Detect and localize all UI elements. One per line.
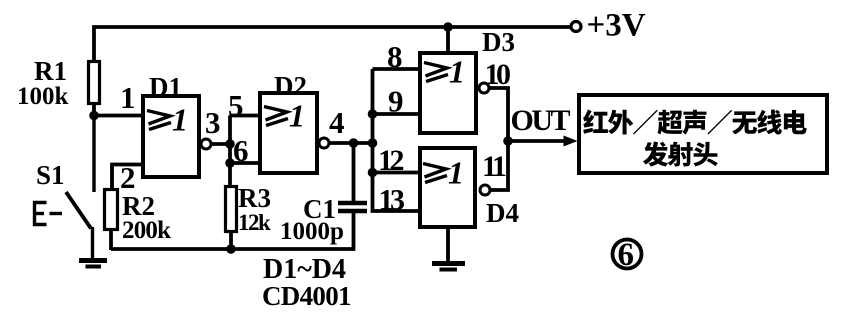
svg-text:D3: D3 xyxy=(482,27,515,57)
figure number 6 circled xyxy=(613,237,642,273)
wire feedback vertical (pin5/pin6/R3) xyxy=(228,116,232,187)
svg-text:2: 2 xyxy=(120,160,136,195)
junction dot pin6 xyxy=(225,158,235,168)
resistor R1 xyxy=(89,62,100,117)
wire pin 12 xyxy=(373,171,421,175)
switch S1 xyxy=(35,116,95,259)
svg-text:S1: S1 xyxy=(36,160,65,190)
ground (below S1) xyxy=(79,261,107,267)
svg-text:1: 1 xyxy=(172,102,188,138)
svg-text:D1: D1 xyxy=(149,72,182,102)
gate D3 (NOR, CD4001) xyxy=(420,53,476,133)
svg-text:D2: D2 xyxy=(274,71,307,101)
output bubble D2 xyxy=(319,138,329,148)
svg-text:D4: D4 xyxy=(486,198,519,228)
svg-text:+3V: +3V xyxy=(587,8,646,44)
svg-text:CD4001: CD4001 xyxy=(262,281,351,311)
wire +3V top rail xyxy=(94,27,571,62)
capacitor C1 xyxy=(338,143,367,211)
svg-text:4: 4 xyxy=(329,105,345,140)
output bubble D3 xyxy=(479,83,489,93)
wire pin 1 xyxy=(94,114,143,118)
wire pin 8 xyxy=(373,67,421,71)
svg-text:6: 6 xyxy=(233,133,249,168)
wire input bus vertical (pins 8,9,12,13) xyxy=(373,69,421,211)
wire D1 output to node xyxy=(211,142,230,146)
svg-text:12k: 12k xyxy=(238,210,271,235)
output bubble D1 xyxy=(201,139,211,149)
junction dot pin9 xyxy=(368,109,378,119)
wire pin 5 xyxy=(230,114,260,118)
gate D1 (NOR, CD4001) xyxy=(143,96,199,177)
svg-text:6: 6 xyxy=(618,237,635,273)
output bubble D4 xyxy=(480,185,490,195)
wire D4 ground stub xyxy=(446,227,450,261)
svg-text:3: 3 xyxy=(205,105,221,140)
resistor R3 xyxy=(226,187,237,251)
svg-text:10: 10 xyxy=(485,58,511,91)
svg-text:8: 8 xyxy=(387,39,403,74)
wire pin 6 xyxy=(230,161,260,165)
svg-text:R3: R3 xyxy=(238,183,271,213)
svg-text:11: 11 xyxy=(482,150,506,183)
transmitter box xyxy=(579,95,827,173)
svg-text:12: 12 xyxy=(378,144,404,177)
svg-text:200k: 200k xyxy=(122,217,171,244)
wire pin 2 (R2 to D1) xyxy=(112,165,143,190)
svg-text:OUT: OUT xyxy=(511,104,571,137)
svg-text:9: 9 xyxy=(388,84,404,119)
svg-text:13: 13 xyxy=(379,184,405,217)
box text line 1: 红外／超声／无线电 xyxy=(583,110,807,135)
wire D2 output xyxy=(329,141,373,145)
svg-text:1: 1 xyxy=(449,54,465,90)
junction dot pin4/bus xyxy=(368,138,378,148)
svg-text:100k: 100k xyxy=(17,83,69,110)
svg-text:5: 5 xyxy=(228,88,244,123)
junction dot power stub xyxy=(443,22,453,32)
gate D2 (NOR, CD4001) xyxy=(260,93,317,173)
junction dot D1out xyxy=(225,139,235,149)
resistor R2 xyxy=(105,190,118,251)
wire D4 output elbow xyxy=(490,141,508,190)
junction dot OUT xyxy=(503,136,513,146)
junction dot C1 top xyxy=(349,138,359,148)
junction dot R3 bottom xyxy=(226,244,236,254)
node A junction dot xyxy=(89,111,99,121)
gate D4 (NOR, CD4001) xyxy=(420,148,475,227)
box text line 2: 发射头 xyxy=(643,142,718,167)
svg-text:1: 1 xyxy=(120,80,136,115)
wire pin 9 xyxy=(373,112,421,116)
wire OUT with arrowhead xyxy=(508,136,578,147)
svg-text:1: 1 xyxy=(448,155,464,191)
wire bottom rail xyxy=(111,213,354,249)
+3V terminal circle xyxy=(571,22,581,32)
ground (below D4) xyxy=(432,264,465,270)
svg-text:1000p: 1000p xyxy=(280,218,344,245)
wire D3 power stub xyxy=(446,27,450,53)
svg-text:1: 1 xyxy=(289,98,305,134)
wire D3 output elbow xyxy=(489,88,508,141)
junction dot pin12 xyxy=(368,168,378,178)
svg-text:R1: R1 xyxy=(34,56,67,86)
